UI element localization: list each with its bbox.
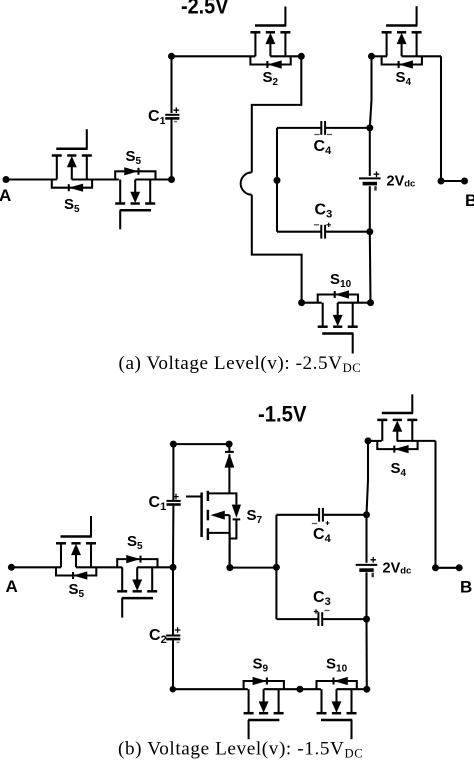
capacitor loop left rail (b) — [275, 515, 277, 619]
svg-text:S10: S10 — [330, 271, 352, 290]
wire S10 row (a) — [302, 302, 371, 304]
node junction S10 left (a) — [298, 299, 305, 306]
svg-text:S9: S9 — [253, 656, 269, 675]
svg-text:(a) Voltage Level(v): -2.5VDC: (a) Voltage Level(v): -2.5VDC — [119, 353, 362, 375]
plus mark 2Vdc (a) — [374, 171, 380, 177]
capacitor C4 (a) — [321, 121, 325, 135]
transistor S5 (a, right NMOS of transmission pair) — [115, 168, 155, 230]
node stray junction on left rail (a) — [274, 177, 281, 184]
node junction C4 / source rail (b) — [363, 511, 370, 518]
wire source rail (a) — [370, 56, 372, 302]
svg-text:S5: S5 — [64, 196, 80, 215]
plus mark C1 (b) — [173, 494, 179, 500]
capacitor C1 (b) — [167, 501, 181, 505]
capacitor C3 (b) — [318, 612, 322, 626]
svg-text:S5: S5 — [127, 533, 143, 552]
svg-text:C1: C1 — [148, 108, 166, 127]
transistor S10 (b) — [317, 677, 357, 739]
node junction S4 left (a) — [368, 53, 375, 60]
node junction S7 bottom (b) — [226, 564, 233, 571]
plus mark 2Vdc (b) — [370, 557, 376, 563]
wire C4 top branch (b) — [276, 514, 366, 516]
capacitor loop left rail (a) — [276, 128, 278, 232]
wire top branch (b) — [173, 443, 229, 445]
svg-text:A: A — [0, 186, 11, 205]
node junction bottom-left corner (b) — [170, 686, 176, 692]
minus mark 2Vdc (a) — [374, 186, 376, 190]
node junction A-wire / C rail (b) — [170, 564, 177, 571]
svg-text:2Vdc: 2Vdc — [387, 174, 416, 190]
polarity marks C3 (b) — [314, 609, 318, 613]
body diode of S7 (right bypass, pointing down) — [229, 493, 240, 538]
node A (b) — [6, 564, 18, 596]
wire A to S5 pair (a) — [6, 178, 172, 180]
node junction C4 / source rail (a) — [366, 124, 373, 131]
svg-text:(b) Voltage Level(v): -1.5VDC: (b) Voltage Level(v): -1.5VDC — [118, 739, 363, 761]
svg-text:S4: S4 — [396, 69, 412, 88]
wire bottom row (b) — [173, 688, 367, 690]
wire S4 to node B (a) — [440, 56, 442, 181]
svg-text:S2: S2 — [263, 69, 279, 88]
wire hop (crossover bump) on vertical rail (a) — [241, 172, 252, 194]
node B (b) — [432, 564, 472, 596]
svg-text:S7: S7 — [247, 507, 263, 526]
transistor S5 (b, right of transmission pair) — [117, 555, 157, 617]
svg-text:2Vdc: 2Vdc — [383, 561, 412, 577]
svg-text:S5: S5 — [126, 148, 142, 167]
wire S4 row (b) — [368, 440, 436, 442]
transistor S7 (rotated, gate at left) — [186, 491, 230, 568]
wire C1-C2 rail (b) — [172, 444, 174, 689]
transistor S5 (a, left PMOS of transmission pair) — [52, 129, 92, 191]
node junction loop left (b) — [273, 564, 280, 571]
wire source rail (b) — [367, 441, 369, 689]
node junction S10 right (a) — [367, 299, 374, 306]
node junction top-right (b) — [226, 441, 233, 448]
transistor S4 (a) — [382, 6, 422, 68]
wire S7 to capacitor loop (b) — [230, 567, 277, 569]
svg-text:S5: S5 — [69, 581, 85, 600]
svg-text:B: B — [460, 578, 472, 597]
voltage source 2Vdc (a) — [359, 178, 381, 183]
transistor S10 (a) — [318, 291, 358, 354]
wire A to S5 pair (b) — [11, 566, 173, 568]
node junction between S9 and S10 (b) — [296, 686, 303, 693]
transistor S5 (b, left of transmission pair) — [56, 516, 96, 579]
wire C3 bottom branch (b) — [276, 618, 366, 620]
svg-text:-1.5V: -1.5V — [258, 402, 307, 427]
node junction C3 / source rail (a) — [366, 228, 373, 235]
svg-text:C4: C4 — [314, 138, 333, 157]
node B (a) — [438, 178, 474, 211]
polarity marks C4 (a) — [314, 134, 319, 136]
wire C3 bottom branch (a) — [277, 231, 370, 233]
node junction C3 / source rail (b) — [363, 616, 370, 623]
capacitor C4 (b) — [319, 508, 323, 522]
wire S2 row (a) — [172, 55, 302, 57]
voltage source 2Vdc (b) — [356, 565, 378, 570]
svg-text:-2.5V: -2.5V — [181, 0, 229, 19]
svg-text:B: B — [465, 191, 474, 210]
node junction C1 top / S2 wire (a) — [168, 53, 175, 60]
capacitor C1 (a) — [165, 115, 179, 119]
svg-text:C4: C4 — [313, 526, 332, 545]
wire S4 to node B (b) — [434, 441, 436, 568]
body diode of S7 (on drain riser, pointing up) — [225, 444, 234, 493]
svg-text:S4: S4 — [391, 460, 407, 479]
wire C4 top branch (a) — [277, 127, 370, 129]
wire C1 rail (a) — [170, 56, 172, 179]
transistor S4 (b) — [377, 394, 417, 452]
capacitor C2 (b) — [166, 636, 180, 640]
polarity marks C3 (a) — [314, 224, 319, 226]
svg-text:C1: C1 — [149, 494, 167, 513]
polarity marks C4 (b) — [312, 523, 317, 525]
wire jog from S2 down-left to hop rail (a) — [252, 56, 301, 172]
svg-text:S10: S10 — [326, 656, 348, 675]
transistor S9 (b) — [244, 677, 284, 739]
plus mark C2 (b) — [175, 627, 181, 633]
minus mark 2Vdc (b) — [372, 573, 374, 577]
plus mark C1 (a) — [174, 107, 180, 113]
wire S7 source down to mid wire (b) — [229, 533, 231, 568]
node junction S2 right (a) — [298, 53, 305, 60]
wire from hop down to S10 row (a) — [252, 195, 302, 303]
node junction bottom-right (b) — [363, 686, 370, 693]
svg-text:C2: C2 — [149, 627, 167, 646]
svg-text:C3: C3 — [315, 202, 333, 221]
transistor S2 (a) — [250, 7, 290, 69]
wire S4 row (a) — [372, 55, 442, 57]
node A (a) — [0, 176, 11, 205]
node junction S4 left (b) — [365, 437, 372, 444]
node junction at C1 bottom (a) — [168, 176, 175, 183]
svg-text:A: A — [6, 577, 18, 596]
node junction top-left (b) — [170, 441, 177, 448]
svg-text:C3: C3 — [313, 589, 331, 608]
capacitor C3 (a) — [321, 225, 325, 239]
